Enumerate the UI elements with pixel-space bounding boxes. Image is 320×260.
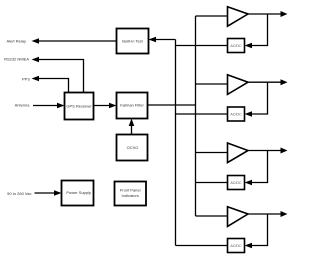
arrowhead into Built-in Test right edge (points left) xyxy=(149,37,157,43)
box U3 Kalman Filter xyxy=(117,93,148,119)
box U6 Front Panel Indicators xyxy=(115,182,147,206)
box AGC 3 xyxy=(228,176,245,190)
arrowhead Antenna into GPS Receiver (points right) xyxy=(57,103,65,109)
svg-text:Antenna: Antenna xyxy=(15,103,31,108)
wire Kalman Filter output to distribution bus C xyxy=(148,104,196,106)
triangle amplifier A1 xyxy=(228,7,249,26)
svg-text:AC/DC: AC/DC xyxy=(230,112,242,116)
svg-text:GPS Receiver: GPS Receiver xyxy=(66,104,92,109)
svg-text:PPS: PPS xyxy=(22,77,30,82)
wire input to amplifier A3 xyxy=(196,152,228,154)
wire feedback tap 2 xyxy=(251,82,268,114)
amplifier A3 xyxy=(196,143,288,190)
svg-text:Front Panel: Front Panel xyxy=(120,187,141,192)
arrowhead into Kalman Filter (points right) xyxy=(109,103,117,109)
wire input to amplifier A4 xyxy=(196,215,228,217)
arrowhead output 1 (points right) xyxy=(281,11,288,17)
wire output of amplifier A4 xyxy=(248,213,281,215)
svg-text:Built-in Test: Built-in Test xyxy=(122,39,143,44)
arrowhead Alert Relay (points left) xyxy=(32,38,40,44)
svg-text:Power Supply: Power Supply xyxy=(66,190,91,195)
wire AGC 4 return to bus A xyxy=(176,245,228,247)
wire RS232 NMEA from GPS Receiver xyxy=(37,60,84,93)
svg-text:Kalman Filter: Kalman Filter xyxy=(120,103,144,108)
arrowhead into AGC box 3 (points left) xyxy=(245,180,253,186)
arrowhead into AGC box 4 (points left) xyxy=(245,243,253,249)
amplifier A1 xyxy=(176,7,288,53)
svg-text:RS232 NMEA: RS232 NMEA xyxy=(4,57,29,62)
amplifier A2 xyxy=(176,75,288,121)
arrowhead RS232 NMEA (points left) xyxy=(32,57,40,63)
svg-text:90 to 260 Vac: 90 to 260 Vac xyxy=(7,191,31,196)
wire Antenna input to GPS Receiver xyxy=(33,105,58,107)
wire feedback tap 1 xyxy=(251,14,268,46)
wire bus A to Built-in Test xyxy=(155,39,176,41)
box U1 Built-in Test xyxy=(117,29,149,54)
wire Alert Relay output from Built-in Test xyxy=(37,40,117,42)
arrowhead OCXO into Kalman Filter bottom (points up) xyxy=(129,119,135,127)
arrowhead PPS (points left) xyxy=(32,76,40,82)
box U5 Power Supply xyxy=(62,181,94,206)
box AGC 2 xyxy=(228,107,245,121)
wire PPS from GPS Receiver xyxy=(37,79,69,93)
wire AGC 3 return to bus C xyxy=(196,182,228,184)
wire feedback tap 4 xyxy=(251,214,268,246)
wire feedback tap 3 xyxy=(251,151,268,183)
wire AGC 1 return to bus A xyxy=(176,45,228,47)
wire GPS Receiver to Kalman Filter xyxy=(94,105,112,107)
box U2 GPS Receiver xyxy=(65,93,94,120)
arrowhead output 3 (points right) xyxy=(281,148,288,154)
triangle amplifier A2 xyxy=(228,75,249,95)
wire vertical bus A (monitor returns to Built-in Test) xyxy=(175,40,177,246)
arrowhead into AGC box 1 (points left) xyxy=(245,43,253,49)
svg-text:AC/DC: AC/DC xyxy=(230,181,242,185)
svg-text:AC/DC: AC/DC xyxy=(230,244,242,248)
arrowhead into AGC box 2 (points left) xyxy=(245,111,253,117)
arrowhead output 2 (points right) xyxy=(281,79,288,85)
triangle amplifier A3 xyxy=(228,143,249,163)
arrowhead output 4 (points right) xyxy=(281,211,288,217)
svg-text:Alert Relay: Alert Relay xyxy=(6,38,26,43)
triangle amplifier A4 xyxy=(228,207,249,227)
box AGC 1 xyxy=(228,39,245,53)
wire output of amplifier A2 xyxy=(248,81,281,83)
wire input to amplifier A1 xyxy=(196,15,228,17)
wire output of amplifier A1 xyxy=(248,13,281,15)
arrowhead into Power Supply (points right) xyxy=(54,190,62,196)
wire vertical bus C (signal distribution) xyxy=(195,16,197,216)
wire output of amplifier A3 xyxy=(248,150,281,152)
box U4 OCXO xyxy=(117,135,148,161)
wire OCXO to Kalman Filter xyxy=(131,125,133,135)
wire AGC 2 return to bus A xyxy=(176,113,228,115)
svg-text:AC/DC: AC/DC xyxy=(230,44,242,48)
wire AC input to Power Supply xyxy=(35,192,57,194)
svg-text:OCXO: OCXO xyxy=(127,145,139,150)
wire input to amplifier A2 xyxy=(196,83,228,85)
box AGC 4 xyxy=(228,239,245,253)
svg-text:Indicators: Indicators xyxy=(122,193,139,198)
amplifier A4 xyxy=(176,207,288,253)
